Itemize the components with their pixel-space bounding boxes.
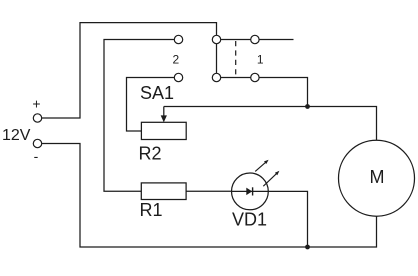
switch SA1 terminal 1 top (C1) bbox=[251, 35, 259, 43]
node: junction of switch position 1 with wiper line bbox=[305, 104, 310, 109]
LED VD1 diode triangle bbox=[246, 188, 252, 196]
wire: switch contact 2 (A1) left and down to R1 bbox=[104, 40, 174, 192]
battery + terminal bbox=[33, 114, 41, 122]
svg-text:+: + bbox=[32, 96, 40, 112]
switch SA1 pole bottom (B2) bbox=[212, 73, 220, 81]
LED VD1 emission arrow 1 bbox=[255, 162, 266, 171]
wire: + supply rail from battery up and across to switch pole bbox=[42, 23, 217, 118]
resistor R1 body bbox=[141, 183, 186, 200]
switch SA1 terminal 2 top (A1) bbox=[174, 35, 182, 43]
svg-text:R1: R1 bbox=[140, 200, 163, 220]
switch SA1 terminal 2 bottom (A2) bbox=[174, 73, 182, 81]
wire: switch pole vertical B1-B2 bbox=[216, 40, 218, 78]
LED VD1 emission arrow 2 bbox=[263, 174, 276, 186]
wire: lead through LED VD1 bbox=[232, 190, 269, 192]
svg-text:R2: R2 bbox=[139, 144, 162, 164]
wire: LED VD1 right lead down to bottom rail bbox=[268, 191, 307, 247]
wire: switch contact A2 left and down to R2 left terminal bbox=[127, 78, 175, 132]
wire: switch top link B1-C1 and open stub of position 1 bbox=[217, 39, 294, 41]
svg-text:12V: 12V bbox=[2, 127, 31, 144]
node: junction of LED branch with bottom rail bbox=[305, 245, 310, 250]
svg-text:VD1: VD1 bbox=[232, 210, 267, 230]
motor M body bbox=[339, 140, 415, 216]
R2 wiper arrowhead bbox=[161, 115, 167, 122]
resistor R2 (rheostat) body bbox=[141, 122, 186, 139]
battery - terminal bbox=[33, 139, 41, 147]
LED VD1 cathode bar bbox=[252, 187, 254, 195]
wire: R1 right lead to LED VD1 bbox=[186, 190, 232, 192]
wire: R2 wiper line across to motor top bbox=[164, 107, 377, 141]
switch SA1 pole top (B1) bbox=[212, 35, 220, 43]
svg-text:SA1: SA1 bbox=[140, 83, 174, 103]
svg-text:2: 2 bbox=[172, 53, 179, 67]
R2 wiper arrow shaft bbox=[163, 107, 165, 118]
svg-text:-: - bbox=[34, 148, 39, 164]
wire: - supply rail from battery along bottom to motor bbox=[42, 144, 377, 248]
svg-text:1: 1 bbox=[257, 53, 264, 67]
svg-text:M: M bbox=[370, 167, 385, 187]
LED VD1 circle bbox=[232, 173, 269, 210]
wire: switch bottom link B2-C2 right and down to wiper node bbox=[217, 78, 308, 107]
switch SA1 terminal 1 bottom (C2) bbox=[251, 73, 259, 81]
mechanical link (dashed) of switch SA1 bbox=[235, 41, 237, 77]
